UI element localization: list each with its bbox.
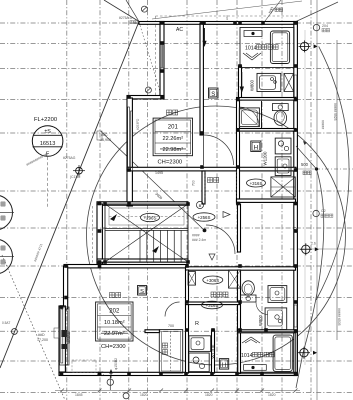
svg-text:##### 6505: ##### 6505 bbox=[337, 308, 341, 326]
svg-text:##D: ##D bbox=[38, 333, 45, 337]
svg-text:22.97m²: 22.97m² bbox=[104, 331, 125, 337]
svg-text:±S: ±S bbox=[44, 129, 51, 135]
svg-text:700: 700 bbox=[192, 180, 196, 186]
svg-text:500: 500 bbox=[301, 162, 309, 167]
svg-text:θ275AG: θ275AG bbox=[63, 156, 76, 160]
svg-text:22.26m²: 22.26m² bbox=[163, 136, 184, 142]
svg-text:202: 202 bbox=[109, 309, 120, 315]
svg-text:H: H bbox=[222, 363, 226, 369]
svg-text:+296S: +296S bbox=[144, 216, 157, 221]
svg-text:AC: AC bbox=[176, 27, 183, 33]
svg-text:+306S: +306S bbox=[206, 278, 219, 283]
svg-text:CH=2300: CH=2300 bbox=[101, 344, 126, 350]
svg-text:700: 700 bbox=[168, 324, 174, 328]
svg-text:####: #### bbox=[192, 234, 200, 238]
svg-text:0.5AT: 0.5AT bbox=[2, 321, 10, 325]
svg-text:### 2.4m: ### 2.4m bbox=[192, 238, 206, 242]
svg-text:θ253FD: θ253FD bbox=[136, 118, 140, 130]
svg-text:φ150B2: φ150B2 bbox=[114, 358, 118, 370]
svg-text:1845: 1845 bbox=[75, 393, 83, 397]
svg-text:S: S bbox=[140, 289, 144, 295]
svg-text:##### 9925: ##### 9925 bbox=[333, 103, 337, 121]
svg-text:W1200: W1200 bbox=[211, 344, 216, 358]
svg-text:1495: 1495 bbox=[155, 171, 163, 175]
svg-text:16513: 16513 bbox=[40, 141, 56, 147]
svg-text:+256S: +256S bbox=[198, 215, 211, 220]
svg-text:1820: 1820 bbox=[140, 393, 148, 397]
svg-text:FL+2200: FL+2200 bbox=[34, 117, 57, 123]
svg-text:1820: 1820 bbox=[205, 393, 213, 397]
svg-text:#####: ##### bbox=[321, 120, 325, 129]
svg-text:10.18m²: 10.18m² bbox=[104, 320, 125, 326]
svg-text:###: ### bbox=[225, 15, 229, 20]
svg-text:R: R bbox=[195, 321, 199, 327]
svg-text:204: 204 bbox=[322, 24, 328, 28]
svg-text:+316S: +316S bbox=[206, 303, 219, 308]
svg-text:(C1)##: (C1)## bbox=[70, 175, 80, 179]
svg-text:+316S: +316S bbox=[250, 181, 263, 186]
svg-text:H: H bbox=[254, 144, 258, 151]
svg-text:1820: 1820 bbox=[268, 393, 276, 397]
svg-text:1014: 1014 bbox=[241, 353, 253, 359]
svg-text:17,200: 17,200 bbox=[37, 338, 48, 342]
svg-text:C2: C2 bbox=[321, 209, 326, 213]
svg-text:2.6: 2.6 bbox=[311, 242, 316, 246]
svg-text:S: S bbox=[211, 92, 215, 98]
svg-text:θ275A.G: θ275A.G bbox=[119, 16, 133, 20]
svg-text:UP: UP bbox=[100, 227, 106, 231]
svg-text:W1200: W1200 bbox=[263, 151, 268, 165]
svg-text:201: 201 bbox=[168, 125, 179, 131]
svg-text:CH=2300: CH=2300 bbox=[158, 160, 183, 166]
svg-text:AC: AC bbox=[97, 372, 104, 378]
svg-text:22.98m²: 22.98m² bbox=[163, 147, 184, 153]
svg-text:B: B bbox=[199, 203, 202, 208]
svg-text:1014: 1014 bbox=[245, 46, 257, 52]
svg-text:W800: W800 bbox=[258, 314, 263, 326]
svg-text:W800: W800 bbox=[250, 79, 255, 91]
